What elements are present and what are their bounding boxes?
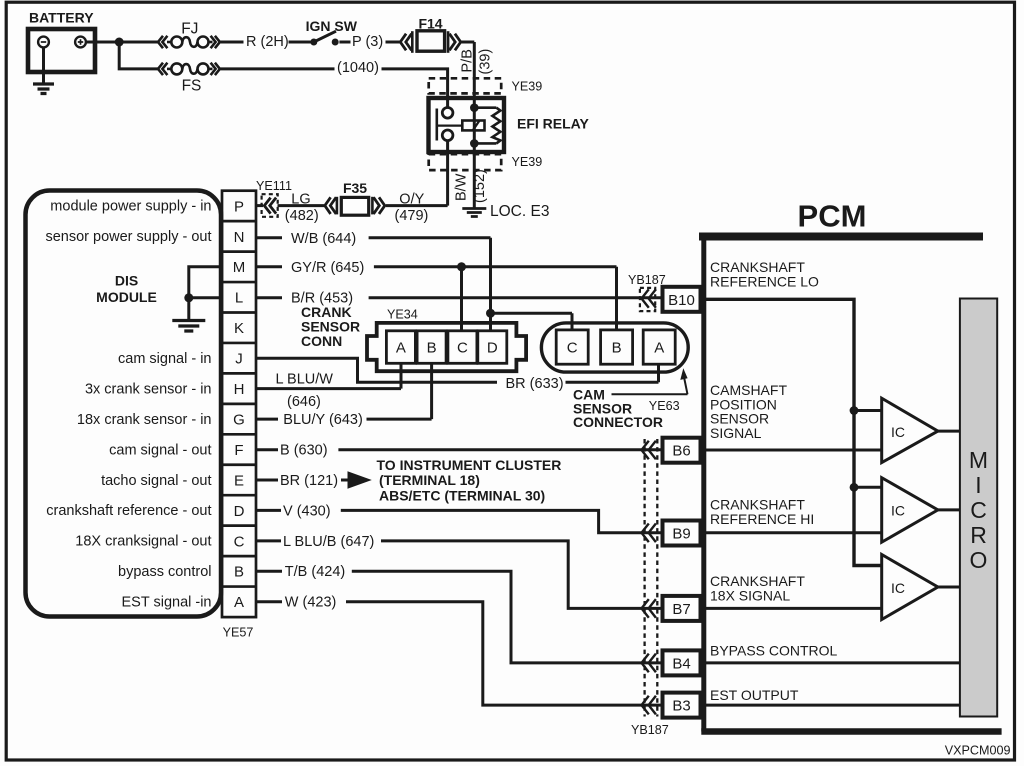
svg-text:REFERENCE LO: REFERENCE LO xyxy=(710,273,819,289)
svg-text:M: M xyxy=(233,259,246,276)
svg-text:F: F xyxy=(234,442,243,459)
svg-text:BYPASS CONTROL: BYPASS CONTROL xyxy=(710,643,838,659)
svg-text:LOC. E3: LOC. E3 xyxy=(490,203,549,220)
svg-text:cam signal - in: cam signal - in xyxy=(118,351,211,367)
svg-text:VXPCM009: VXPCM009 xyxy=(945,744,1011,758)
svg-text:A: A xyxy=(396,339,406,356)
svg-text:YE111: YE111 xyxy=(256,179,292,193)
svg-text:IC: IC xyxy=(891,424,905,440)
svg-text:O: O xyxy=(970,547,988,573)
svg-text:B9: B9 xyxy=(672,526,690,543)
svg-text:W (423): W (423) xyxy=(285,595,337,611)
svg-text:B4: B4 xyxy=(672,655,690,672)
svg-text:B3: B3 xyxy=(672,698,690,715)
svg-text:R: R xyxy=(970,522,987,548)
svg-text:(152): (152) xyxy=(472,169,488,203)
svg-text:(482): (482) xyxy=(285,208,319,224)
svg-text:BLU/Y (643): BLU/Y (643) xyxy=(283,412,363,428)
svg-text:P (3): P (3) xyxy=(352,34,383,50)
svg-text:C: C xyxy=(457,339,468,356)
svg-text:3x crank sensor - in: 3x crank sensor - in xyxy=(85,381,212,397)
svg-text:YE39: YE39 xyxy=(512,155,543,169)
svg-text:BATTERY: BATTERY xyxy=(29,10,94,26)
svg-text:YB187: YB187 xyxy=(631,723,669,737)
svg-text:V (430): V (430) xyxy=(283,503,331,519)
svg-text:PCM: PCM xyxy=(798,199,867,234)
svg-text:YE57: YE57 xyxy=(223,626,254,640)
svg-text:(1040): (1040) xyxy=(337,60,379,76)
svg-text:crankshaft reference - out: crankshaft reference - out xyxy=(46,503,211,519)
svg-text:C: C xyxy=(567,339,578,356)
svg-text:REFERENCE HI: REFERENCE HI xyxy=(710,511,814,527)
svg-text:DIS: DIS xyxy=(115,273,138,289)
svg-text:G: G xyxy=(233,412,245,429)
svg-text:cam signal - out: cam signal - out xyxy=(109,442,211,458)
svg-text:IGN SW: IGN SW xyxy=(306,18,358,34)
svg-text:R (2H): R (2H) xyxy=(246,34,289,50)
svg-text:bypass control: bypass control xyxy=(118,564,212,580)
svg-text:W/B (644): W/B (644) xyxy=(291,231,356,247)
svg-text:B6: B6 xyxy=(672,443,690,460)
svg-text:C: C xyxy=(234,533,245,550)
svg-text:IC: IC xyxy=(891,580,905,596)
svg-text:P: P xyxy=(234,198,244,215)
svg-text:(479): (479) xyxy=(395,208,429,224)
svg-text:N: N xyxy=(234,229,245,246)
svg-text:L: L xyxy=(235,290,243,307)
svg-text:A: A xyxy=(654,339,664,356)
svg-text:(646): (646) xyxy=(287,394,321,410)
svg-text:L BLU/W: L BLU/W xyxy=(276,372,334,388)
svg-text:T/B (424): T/B (424) xyxy=(285,564,345,580)
svg-text:sensor power supply - out: sensor power supply - out xyxy=(45,229,211,245)
svg-text:F35: F35 xyxy=(343,180,367,196)
svg-text:O/Y: O/Y xyxy=(399,192,424,208)
svg-text:YE39: YE39 xyxy=(512,80,543,94)
svg-text:ABS/ETC (TERMINAL 30): ABS/ETC (TERMINAL 30) xyxy=(379,488,545,504)
svg-text:EST signal -in: EST signal -in xyxy=(122,595,212,611)
svg-text:BR (121): BR (121) xyxy=(280,473,338,489)
svg-text:EFI RELAY: EFI RELAY xyxy=(517,116,589,132)
svg-text:J: J xyxy=(235,351,243,368)
svg-text:(TERMINAL 18): (TERMINAL 18) xyxy=(379,472,480,488)
svg-text:YB187: YB187 xyxy=(628,273,666,287)
svg-text:E: E xyxy=(234,472,244,489)
svg-text:FJ: FJ xyxy=(181,21,198,38)
svg-text:B: B xyxy=(612,339,622,356)
svg-text:BR (633): BR (633) xyxy=(506,376,564,392)
svg-text:YE63: YE63 xyxy=(649,399,680,413)
svg-text:D: D xyxy=(487,339,498,356)
svg-text:B7: B7 xyxy=(672,601,690,618)
svg-text:D: D xyxy=(234,503,245,520)
svg-text:18x crank sensor - in: 18x crank sensor - in xyxy=(77,412,212,428)
svg-text:CONNECTOR: CONNECTOR xyxy=(573,414,663,430)
svg-text:P/B: P/B xyxy=(460,49,476,72)
svg-text:B: B xyxy=(234,564,244,581)
svg-text:FS: FS xyxy=(182,78,202,95)
svg-text:GY/R (645): GY/R (645) xyxy=(291,260,364,276)
svg-text:B/W: B/W xyxy=(454,173,470,201)
svg-text:F14: F14 xyxy=(418,16,442,32)
svg-text:B10: B10 xyxy=(668,292,695,309)
svg-text:YE34: YE34 xyxy=(387,308,418,322)
svg-text:K: K xyxy=(234,320,244,337)
svg-text:B: B xyxy=(427,339,437,356)
svg-text:IC: IC xyxy=(891,503,905,519)
svg-text:B (630): B (630) xyxy=(280,443,328,459)
svg-text:18X cranksignal - out: 18X cranksignal - out xyxy=(75,534,211,550)
svg-text:SIGNAL: SIGNAL xyxy=(710,425,762,441)
svg-text:A: A xyxy=(234,594,244,611)
svg-text:CONN: CONN xyxy=(301,333,342,349)
svg-text:tacho signal - out: tacho signal - out xyxy=(101,473,211,489)
svg-text:C: C xyxy=(970,497,987,523)
svg-text:MODULE: MODULE xyxy=(96,289,157,305)
svg-text:M: M xyxy=(969,447,988,473)
svg-text:module power supply - in: module power supply - in xyxy=(50,199,211,215)
svg-text:(39): (39) xyxy=(478,49,494,75)
svg-text:EST OUTPUT: EST OUTPUT xyxy=(710,687,799,703)
svg-text:L BLU/B (647): L BLU/B (647) xyxy=(283,534,374,550)
svg-text:18X SIGNAL: 18X SIGNAL xyxy=(710,587,790,603)
svg-text:I: I xyxy=(975,472,981,498)
svg-text:LG: LG xyxy=(291,192,310,208)
svg-text:H: H xyxy=(234,381,245,398)
svg-text:TO INSTRUMENT CLUSTER: TO INSTRUMENT CLUSTER xyxy=(377,457,562,473)
